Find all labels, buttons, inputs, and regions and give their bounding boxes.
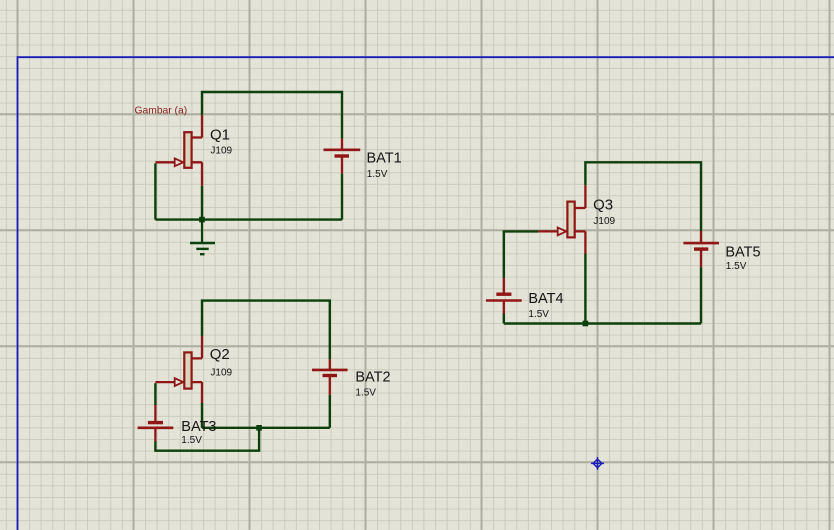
svg-text:1.5V: 1.5V [528, 309, 549, 320]
svg-text:1.5V: 1.5V [181, 435, 202, 446]
svg-text:BAT4: BAT4 [528, 291, 563, 307]
node junction circuit 2 [256, 425, 262, 431]
node junction circuit 3 [583, 321, 589, 327]
transistor Q3 [538, 185, 585, 253]
svg-text:1.5V: 1.5V [726, 261, 747, 272]
wire BAT3 bottom to junction [155, 428, 259, 451]
battery BAT2 [312, 359, 348, 394]
wire BAT2 bottom lead [329, 395, 331, 428]
transistor Q2 [155, 336, 202, 403]
svg-text:J109: J109 [210, 368, 232, 379]
wire bottom net circuit 3 [504, 322, 701, 324]
wire BAT5 bottom lead [700, 267, 702, 323]
transistor Q1 [155, 115, 202, 185]
battery BAT1 [324, 139, 361, 174]
svg-text:1.5V: 1.5V [367, 169, 388, 180]
ground [190, 220, 215, 255]
wire Q3 source down to bottom net [584, 254, 586, 324]
wire Q2 drain to BAT2 top [202, 301, 330, 360]
svg-text:BAT3: BAT3 [181, 419, 216, 435]
wire Q1 source down to bottom net [201, 186, 203, 220]
wire Q3 drain to BAT5 top [585, 162, 701, 231]
battery BAT4 [486, 278, 522, 314]
wire Q2 source down to bottom net [201, 403, 203, 428]
wire gate loop Q2 to BAT3 [154, 383, 156, 405]
wire gate loop Q1 [154, 163, 156, 219]
svg-text:J109: J109 [210, 146, 232, 157]
wire bottom net circuit 2 [202, 427, 330, 429]
svg-text:Q3: Q3 [593, 196, 613, 213]
battery BAT5 [683, 231, 719, 267]
svg-text:BAT2: BAT2 [355, 370, 390, 386]
svg-text:J109: J109 [593, 216, 615, 227]
wire bottom net circuit 1 [155, 218, 342, 220]
wire Q3 gate to BAT4 [504, 231, 539, 278]
origin marker [591, 457, 604, 470]
svg-text:1.5V: 1.5V [355, 387, 376, 398]
wire BAT4 bottom to bottom net [503, 313, 505, 324]
svg-text:BAT5: BAT5 [725, 245, 760, 261]
battery BAT3 [138, 405, 174, 442]
wire Q1 drain to BAT1 top [202, 92, 342, 139]
wire BAT1 bottom lead [341, 174, 343, 220]
svg-text:Q2: Q2 [210, 346, 230, 363]
svg-text:Gambar (a): Gambar (a) [135, 106, 188, 117]
svg-text:BAT1: BAT1 [367, 151, 402, 167]
node junction circuit 1 [199, 217, 205, 223]
svg-text:Q1: Q1 [210, 126, 230, 143]
